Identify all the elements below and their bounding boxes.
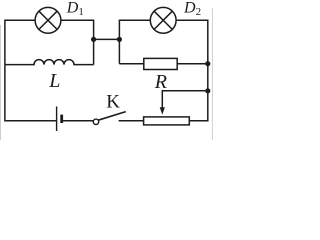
wiper arrow of rheostat	[160, 90, 165, 115]
wire R right lead	[177, 63, 208, 65]
svg-text:D1: D1	[66, 0, 84, 18]
wire left vertical	[4, 20, 6, 122]
wire D2 right lead	[176, 19, 208, 21]
node A junction dot	[91, 37, 96, 42]
svg-text:K: K	[106, 92, 120, 113]
faint scan border left	[0, 25, 2, 140]
wire mid-right vertical	[118, 20, 120, 64]
wire mid-left vertical	[93, 20, 95, 65]
wire battery to switch	[62, 120, 94, 122]
battery cell	[57, 107, 62, 132]
wire right vertical	[207, 20, 209, 122]
inductor L	[5, 60, 94, 65]
wire top-left (D1 branch left lead)	[5, 19, 35, 21]
lamp D1	[35, 7, 61, 33]
wire middle link	[94, 38, 120, 40]
svg-text:L: L	[48, 70, 60, 92]
wire D2 left lead	[120, 19, 151, 21]
svg-text:D2: D2	[183, 0, 201, 18]
wire rheostat to right vertical	[189, 120, 208, 122]
wire wiper horizontal	[162, 90, 208, 92]
svg-text:R: R	[154, 71, 167, 93]
faint scan border right	[211, 8, 213, 140]
wire D1 right lead	[61, 19, 94, 21]
wire R left lead	[119, 63, 143, 65]
node D junction dot	[205, 88, 210, 93]
wire switch to rheostat	[119, 120, 144, 122]
node C junction dot	[205, 61, 210, 66]
resistor R	[144, 58, 177, 69]
switch K	[93, 112, 126, 125]
node B junction dot	[117, 37, 122, 42]
wire bottom-left	[5, 120, 56, 122]
lamp D2	[150, 7, 176, 33]
rheostat body	[144, 117, 190, 125]
